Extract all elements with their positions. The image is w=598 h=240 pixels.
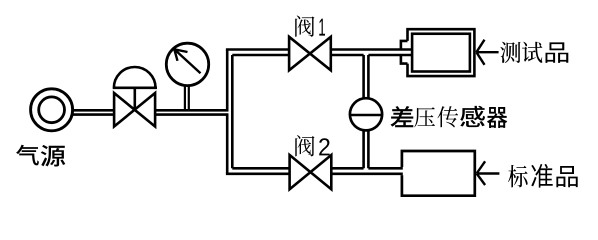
wire sensor riser lower [364,130,369,168]
standard item box [402,151,475,196]
test item vessel outer shell with socket [401,29,475,76]
differential pressure sensor circle [350,98,382,130]
gauge needle [174,49,200,73]
valve V1 bowtie [289,37,331,71]
regulator valve bowtie [114,93,155,127]
gas source inner circle [39,97,65,123]
wire left riser inner line [231,55,234,168]
arrow to standard item [477,161,500,185]
wire left riser outer line [226,50,229,174]
label 阀1 (valve 1) [295,16,325,37]
label 测试品 (test item) [500,42,568,63]
gauge stem double line [185,87,189,112]
label 阀2 (valve 2) [295,135,329,156]
wire pipe regulator to riser [155,110,228,114]
pressure gauge dial [166,43,208,85]
label 气源 (gas source) [16,145,65,167]
wire bottom branch lower line [226,173,403,176]
test item vessel inner wall [412,34,470,72]
wire top branch upper line [226,48,412,51]
regulator actuator dome [113,67,157,110]
wire sensor riser upper [364,55,369,99]
valve V2 bowtie [290,155,332,189]
arrow to test item [476,40,498,65]
wire top branch lower line [232,54,412,57]
label 差压传感器 (differential pressure sensor) [391,106,508,128]
wire bottom branch upper line [232,167,402,170]
label 标准品 (standard item) [508,164,578,188]
wire pipe source to regulator [72,110,115,114]
gas source outer circle [31,89,73,131]
sensor chord line [350,114,382,117]
